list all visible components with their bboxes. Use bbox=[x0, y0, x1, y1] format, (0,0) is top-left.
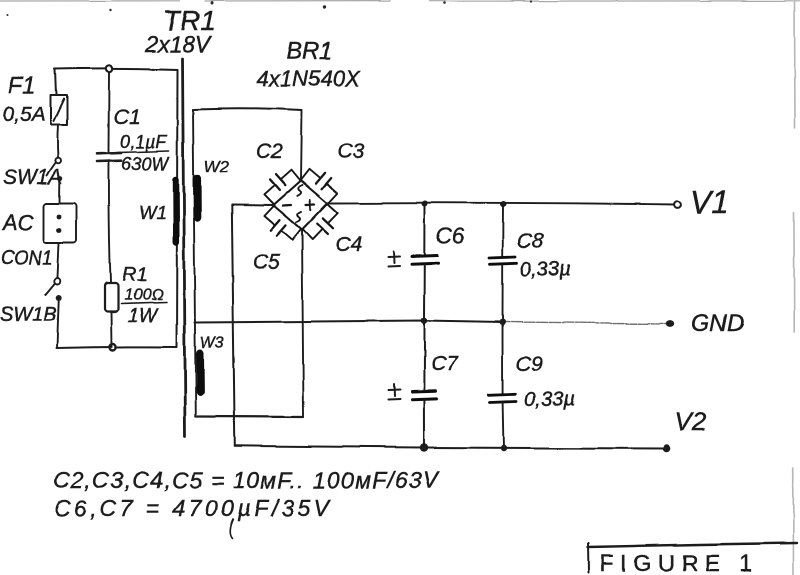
capacitor C3 snubber bbox=[301, 163, 342, 203]
svg-text:W3: W3 bbox=[200, 335, 224, 352]
svg-text:SW1B: SW1B bbox=[0, 304, 57, 326]
wire C1 to R1 bbox=[109, 162, 111, 284]
note capacitor values line1 bbox=[53, 467, 441, 493]
label C2 bbox=[256, 140, 283, 163]
winding W2 bbox=[193, 179, 202, 218]
wire CON1 to SW1B bbox=[58, 243, 60, 278]
label C9 0,33u bbox=[516, 353, 574, 411]
label C4 bbox=[335, 233, 362, 256]
wire C7 to V2 bbox=[423, 400, 425, 448]
wire C6 to GND bbox=[424, 265, 426, 321]
wire C9 column top bbox=[502, 322, 504, 394]
label C7 polarity bbox=[389, 352, 460, 400]
terminal V1 bbox=[674, 201, 681, 208]
node V1-C8 junction bbox=[500, 201, 506, 207]
svg-text:4x1N540X: 4x1N540X bbox=[257, 66, 361, 91]
svg-text:F1: F1 bbox=[8, 72, 36, 99]
wire C9 to V2 bbox=[502, 403, 505, 448]
label C3 bbox=[337, 140, 364, 163]
label W1 bbox=[139, 203, 166, 223]
label SW1A bbox=[3, 166, 63, 189]
scan edge line bbox=[793, 2, 795, 575]
wire bridge minus to V2 drop bbox=[232, 204, 273, 207]
label C8 0,33u bbox=[517, 230, 570, 281]
wire C6 column top bbox=[424, 204, 426, 256]
svg-text:1W: 1W bbox=[128, 306, 159, 327]
label F1 0,5A bbox=[2, 72, 45, 126]
capacitor C6 bbox=[412, 256, 438, 265]
node GND-C8 junction bbox=[500, 319, 506, 325]
label GND bbox=[691, 310, 744, 337]
svg-text:C1: C1 bbox=[114, 106, 141, 129]
label V1 bbox=[690, 184, 729, 220]
winding W1 primary bbox=[176, 70, 178, 348]
resistor R1 bbox=[105, 284, 119, 313]
wire SW1A to CON1 bbox=[59, 181, 61, 203]
terminal GND bbox=[666, 320, 674, 327]
fuse F1 bbox=[51, 95, 68, 125]
node V2-C9 junction bbox=[500, 445, 506, 451]
svg-text:C9: C9 bbox=[516, 353, 543, 376]
label C1 0,1uF 630W bbox=[114, 106, 170, 174]
capacitor C8 bbox=[489, 257, 517, 264]
svg-text:SW1A: SW1A bbox=[3, 166, 63, 189]
wire V2 drop vertical bbox=[232, 205, 235, 446]
wire secondary right to bridge top bbox=[301, 111, 302, 181]
wire secondary bottom edge bbox=[196, 415, 304, 418]
svg-text:0,33µ: 0,33µ bbox=[524, 389, 574, 411]
switch SW1A bbox=[47, 158, 62, 181]
svg-text:C3: C3 bbox=[337, 140, 364, 163]
capacitor C4 snubber bbox=[303, 204, 343, 245]
terminal V2 bbox=[663, 445, 671, 453]
label W3 bbox=[200, 335, 224, 352]
wire secondary left edge bbox=[193, 110, 196, 417]
node primary top junction bbox=[106, 65, 112, 71]
svg-text:C7: C7 bbox=[431, 352, 459, 375]
svg-text:C8: C8 bbox=[517, 230, 544, 253]
winding W3 bbox=[196, 354, 204, 393]
svg-text:C4: C4 bbox=[335, 233, 362, 256]
wire SW1B to bottom bbox=[57, 301, 59, 348]
wire primary bottom bbox=[57, 347, 177, 348]
svg-text:100Ω: 100Ω bbox=[124, 287, 163, 304]
label V2 bbox=[674, 407, 706, 437]
svg-text:630W: 630W bbox=[121, 154, 170, 174]
label C6 polarity bbox=[389, 223, 465, 267]
wire C7 column top bbox=[423, 321, 425, 391]
svg-text:C6,C7 = 4700µF/35V: C6,C7 = 4700µF/35V bbox=[54, 495, 332, 521]
wire secondary top edge bbox=[193, 109, 302, 111]
wire primary top bbox=[55, 68, 178, 69]
label W2 bbox=[204, 157, 230, 176]
wire GND rail bbox=[195, 321, 666, 324]
transformer TR1 label 2x18V bbox=[144, 5, 216, 57]
svg-text:C2,C3,C4,C5 = 10мF.. 100мF/63V: C2,C3,C4,C5 = 10мF.. 100мF/63V bbox=[53, 467, 441, 493]
switch SW1B bbox=[46, 278, 62, 301]
capacitor C5 snubber bbox=[260, 206, 301, 246]
wire C8 column top bbox=[502, 204, 504, 256]
connector CON1 AC bbox=[44, 203, 77, 243]
capacitor C9 bbox=[488, 394, 516, 402]
figure title block bbox=[588, 543, 797, 575]
wire C1 branch bbox=[108, 72, 111, 152]
label R1 100ohm 1W bbox=[121, 264, 166, 327]
scan top edge line bbox=[0, 0, 800, 2]
wire V2 rail bbox=[235, 446, 666, 449]
wire bridge bottom to box bottom bbox=[302, 230, 304, 417]
svg-text:CON1: CON1 bbox=[0, 248, 53, 269]
svg-text:C6: C6 bbox=[436, 223, 465, 248]
label AC CON1 bbox=[0, 210, 53, 269]
transformer core bbox=[183, 59, 186, 438]
label BR1 4x1N540X bbox=[257, 38, 361, 91]
wire R1 to bottom bbox=[111, 312, 114, 348]
svg-text:V2: V2 bbox=[674, 407, 706, 437]
scan specks bbox=[7, 0, 532, 16]
capacitor C7 bbox=[412, 391, 437, 400]
svg-text:2x18V: 2x18V bbox=[144, 31, 213, 57]
capacitor C2 snubber bbox=[259, 164, 300, 204]
wire C8 to GND bbox=[502, 265, 504, 323]
svg-text:C5: C5 bbox=[253, 251, 280, 274]
svg-text:BR1: BR1 bbox=[286, 38, 333, 65]
node primary bottom junction bbox=[110, 345, 116, 351]
svg-text:C2: C2 bbox=[256, 140, 283, 163]
bridge BR1 diamond bbox=[273, 180, 328, 230]
wire fuse drop bbox=[56, 69, 57, 95]
node V1-C6 junction bbox=[422, 201, 428, 207]
svg-text:V1: V1 bbox=[690, 184, 729, 220]
node GND-C6 junction bbox=[421, 317, 428, 324]
svg-text:FIGURE 1: FIGURE 1 bbox=[600, 550, 758, 575]
svg-text:AC: AC bbox=[1, 210, 34, 235]
svg-text:0,1µF: 0,1µF bbox=[120, 132, 167, 152]
capacitor C1 bbox=[97, 153, 121, 162]
svg-text:0,5A: 0,5A bbox=[2, 103, 45, 126]
svg-text:GND: GND bbox=[691, 310, 744, 337]
svg-text:W2: W2 bbox=[204, 157, 230, 176]
wire V1 rail bbox=[328, 203, 676, 205]
note capacitor values line2 bbox=[54, 495, 332, 538]
svg-text:0,33µ: 0,33µ bbox=[520, 259, 570, 281]
wire fuse to SW1A bbox=[56, 125, 59, 159]
label C5 bbox=[253, 251, 280, 274]
node V2-C7 junction bbox=[420, 443, 428, 451]
label SW1B bbox=[0, 304, 57, 326]
svg-text:R1: R1 bbox=[122, 264, 148, 286]
svg-text:W1: W1 bbox=[139, 203, 166, 223]
